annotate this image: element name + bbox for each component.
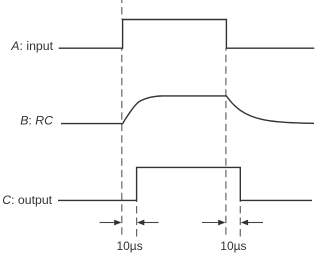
svg-text:B: RC: B: RC <box>20 113 53 127</box>
dashed timing line t1 (input rising edge, main) <box>121 48 123 237</box>
waveform C: output pulse <box>58 167 312 200</box>
waveform B: RC exponential <box>61 96 314 124</box>
waveform A: input pulse <box>59 20 315 49</box>
arrow pointing left at output rising edge <box>143 222 158 224</box>
svg-text:10µs: 10µs <box>220 239 246 253</box>
svg-text:C: output: C: output <box>2 193 52 207</box>
svg-text:10µs: 10µs <box>116 239 142 253</box>
arrow pointing right at t2 <box>202 222 219 224</box>
dashed extender below output rising edge <box>136 201 138 238</box>
svg-text:A: input: A: input <box>10 39 53 53</box>
dashed timing line t1 (input rising edge, upper stub) <box>121 0 123 20</box>
arrow pointing left at output falling edge <box>248 222 264 224</box>
dashed extender below output falling edge <box>239 201 241 238</box>
dashed timing line t2 (input falling edge) <box>225 48 227 237</box>
arrow pointing right at t1 <box>100 222 116 224</box>
